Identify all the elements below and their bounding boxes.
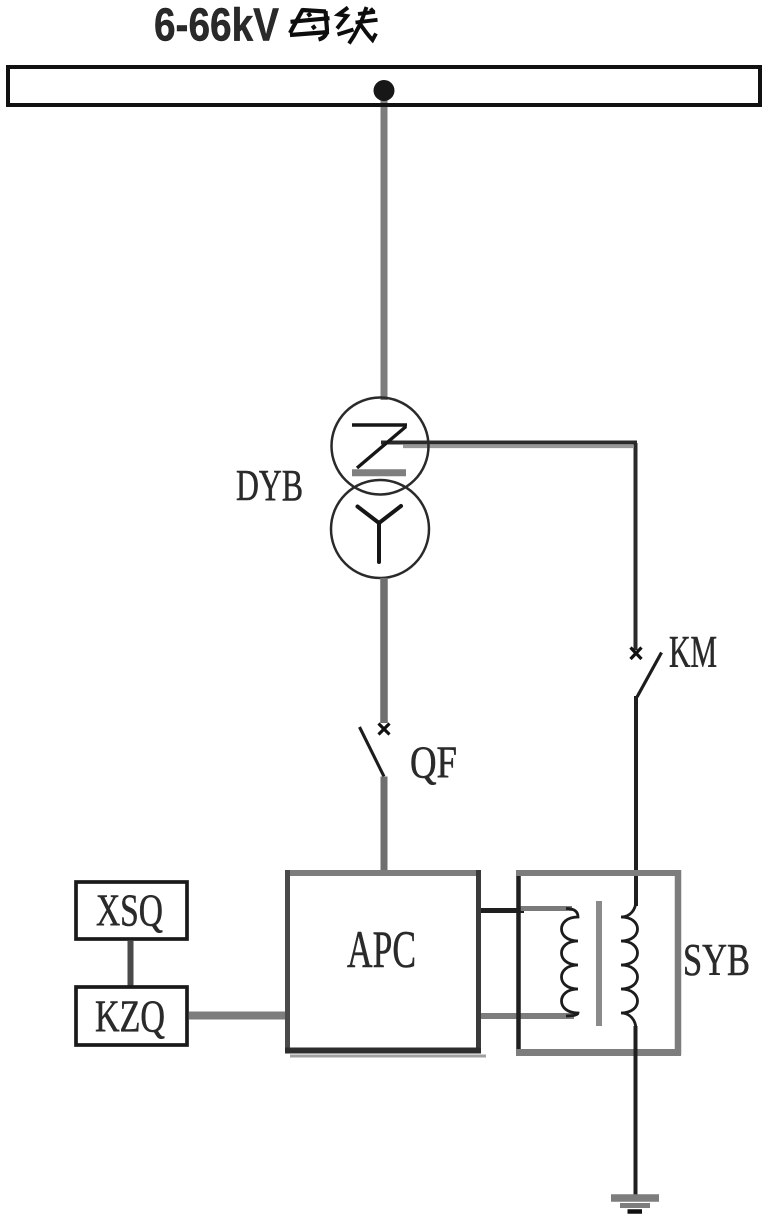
wire APC to SYB lower (481, 1013, 574, 1019)
SYB left winding (562, 909, 579, 1017)
wire transformer to QF (380, 578, 388, 723)
svg-text:APC: APC (347, 921, 416, 979)
svg-text:XSQ: XSQ (96, 886, 163, 936)
box SYB bottom edge (516, 1049, 681, 1056)
Z winding symbol (352, 423, 407, 427)
junction dot (374, 80, 395, 101)
wire to KM (horizontal) (381, 441, 637, 445)
QF blade (360, 727, 385, 777)
wire SYB to ground (634, 1026, 638, 1197)
box APC left edge (285, 870, 290, 1053)
wire KM to SYB (634, 696, 638, 906)
title hanzi MU (mother) (290, 9, 330, 40)
wire QF to APC (381, 777, 388, 874)
svg-text:KM: KM (669, 627, 717, 677)
box APC top edge (285, 870, 481, 876)
ground bar 3 (628, 1209, 643, 1214)
box SYB right edge (675, 870, 682, 1055)
wire upper inside SYB (520, 906, 572, 911)
transformer core bar (596, 901, 602, 1026)
busbar bottom edge over wire (372, 103, 398, 107)
wire bus to transformer (381, 94, 388, 400)
box SYB top edge (516, 870, 681, 876)
transformer DYB circle 2 (331, 480, 429, 578)
svg-text:QF: QF (410, 738, 457, 788)
Y winding symbol (358, 506, 402, 562)
transformer DYB circle 1 (332, 398, 429, 495)
QF x-mark (379, 724, 390, 735)
svg-text:6-66kV: 6-66kV (154, 0, 279, 51)
wire KZQ to APC (189, 1012, 288, 1020)
svg-text:SYB: SYB (683, 935, 750, 985)
SYB right winding (621, 900, 638, 1030)
ground bar 2 (620, 1203, 650, 1208)
title hanzi XIAN (line) (337, 7, 378, 44)
wire APC to SYB upper (481, 908, 524, 913)
svg-text:DYB: DYB (236, 461, 303, 510)
box SYB left edge (516, 870, 521, 1054)
KM x-mark (631, 648, 642, 660)
box KZQ (76, 987, 187, 1045)
KM blade (637, 653, 662, 698)
wire XSQ to KZQ (128, 941, 134, 987)
box XSQ (76, 882, 187, 939)
box APC bottom edge (285, 1048, 481, 1054)
box APC right edge (476, 870, 481, 1053)
busbar (8, 67, 760, 105)
wire KM vertical upper (634, 443, 638, 650)
box APC bottom shadow (290, 1055, 486, 1058)
svg-text:KZQ: KZQ (95, 992, 165, 1042)
ground bar 1 (611, 1194, 659, 1202)
